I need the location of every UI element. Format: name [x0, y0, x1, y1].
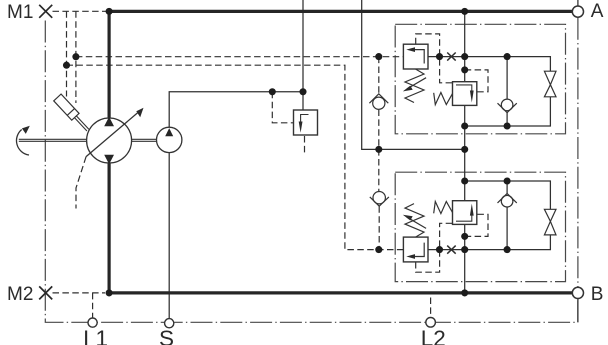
- wire relief pilot top block: [416, 34, 453, 83]
- spring RV2: [405, 204, 426, 238]
- main thick line A side: [109, 11, 572, 117]
- wire L2 stub dashed: [430, 298, 432, 318]
- wire charge pump outlet: [169, 92, 303, 127]
- svg-text:M1: M1: [7, 2, 33, 23]
- wire bottom check valve upper stem: [506, 181, 508, 194]
- relief valve RV2 bottom block: [403, 237, 428, 262]
- wire bottom check valve lower stem: [506, 207, 508, 250]
- wire pilot tee to bottom block: [67, 65, 404, 249]
- wire main vertical segment 3: [464, 224, 466, 293]
- wire pump servo feedback dashed: [76, 157, 86, 209]
- wire top check valve lower stem: [506, 113, 508, 126]
- svg-text:I 1: I 1: [83, 326, 108, 345]
- gauge port M2 symbol: [39, 286, 52, 299]
- throttle TH2 bottom block: [544, 209, 556, 235]
- charge pump: [157, 127, 182, 152]
- wire pilot tee to top block: [76, 56, 404, 58]
- relief valve RV1 top block: [403, 44, 428, 69]
- port A circle: [572, 6, 583, 17]
- dash-dot sub-enclosure box bottom valve block: [395, 172, 565, 281]
- svg-text:L2: L2: [421, 326, 446, 345]
- check valve CHK2 bottom block: [498, 194, 517, 208]
- spring CV2: [434, 202, 453, 214]
- wire top block main line and throttle stem: [428, 57, 550, 72]
- throttle TH1 top block: [544, 71, 556, 97]
- plug X1 top block: [447, 53, 456, 61]
- wire relief pilot bottom block: [416, 223, 453, 272]
- servo cylinder: [54, 94, 92, 134]
- check valve left LCHK1 top block: [369, 94, 388, 109]
- wire M2 gauge dashed: [53, 292, 106, 294]
- servo piston rod double line: [76, 116, 88, 129]
- spring CV1: [434, 93, 453, 105]
- wire charge relief feed from top: [302, 0, 304, 110]
- port B circle: [572, 287, 583, 298]
- wire top check valve upper stem: [506, 57, 508, 100]
- wire charge relief drain dashed: [304, 136, 306, 153]
- svg-text:S: S: [159, 326, 174, 345]
- charge relief valve: [294, 110, 318, 135]
- main thick line B side: [109, 163, 572, 293]
- plug X2 bottom block: [447, 246, 456, 254]
- compensator valve CV2 bottom block: [453, 201, 477, 225]
- wire port B to border corner: [577, 299, 579, 323]
- check valve left LCHK2 bottom block: [370, 192, 389, 207]
- wire servo pilot right vertical: [75, 11, 77, 103]
- shaft link pump to charge pump: [132, 139, 157, 141]
- wire compensator pilot bottom block: [465, 214, 488, 236]
- wire compensator pilot top block: [465, 70, 488, 92]
- wire servo pilot left vertical: [66, 11, 68, 96]
- wire S suction line: [168, 153, 170, 319]
- enclosure border left and bottom: [45, 21, 578, 323]
- wire M1 gauge dashed: [53, 10, 107, 12]
- svg-text:M2: M2: [7, 284, 33, 305]
- svg-text:A: A: [591, 1, 604, 22]
- wire bottom block upper rail: [465, 181, 551, 209]
- pump drive shaft double line: [19, 139, 87, 141]
- enclosure border right: [577, 18, 579, 287]
- wire check column middle: [378, 110, 380, 192]
- wire L1 drop dashed: [92, 293, 94, 318]
- wire port A top stub: [577, 0, 579, 6]
- pump P1 variable displacement: [86, 108, 143, 164]
- port S circle: [165, 319, 174, 328]
- wire bottom block main line and throttle stem: [428, 235, 550, 250]
- wire check column bottom: [378, 206, 380, 249]
- wire charge relief pilot dashed: [272, 92, 293, 123]
- spring RV1: [405, 69, 426, 103]
- port L2 circle: [426, 318, 436, 328]
- gauge port M1 symbol: [39, 5, 52, 18]
- rotation direction arrow: [16, 126, 29, 155]
- wire top block lower rail: [465, 97, 551, 126]
- svg-text:B: B: [591, 284, 604, 305]
- wire check column top block: [378, 57, 380, 94]
- wire main vertical segment 2: [464, 105, 466, 200]
- check valve CHK1 top block: [498, 99, 517, 113]
- wire case drain vertical and cross link: [362, 0, 465, 149]
- port L1 circle: [88, 318, 97, 327]
- dash-dot sub-enclosure box top valve block: [395, 24, 565, 134]
- compensator valve CV1 top block: [453, 82, 477, 106]
- wire main vertical A to B segment 1: [464, 11, 466, 81]
